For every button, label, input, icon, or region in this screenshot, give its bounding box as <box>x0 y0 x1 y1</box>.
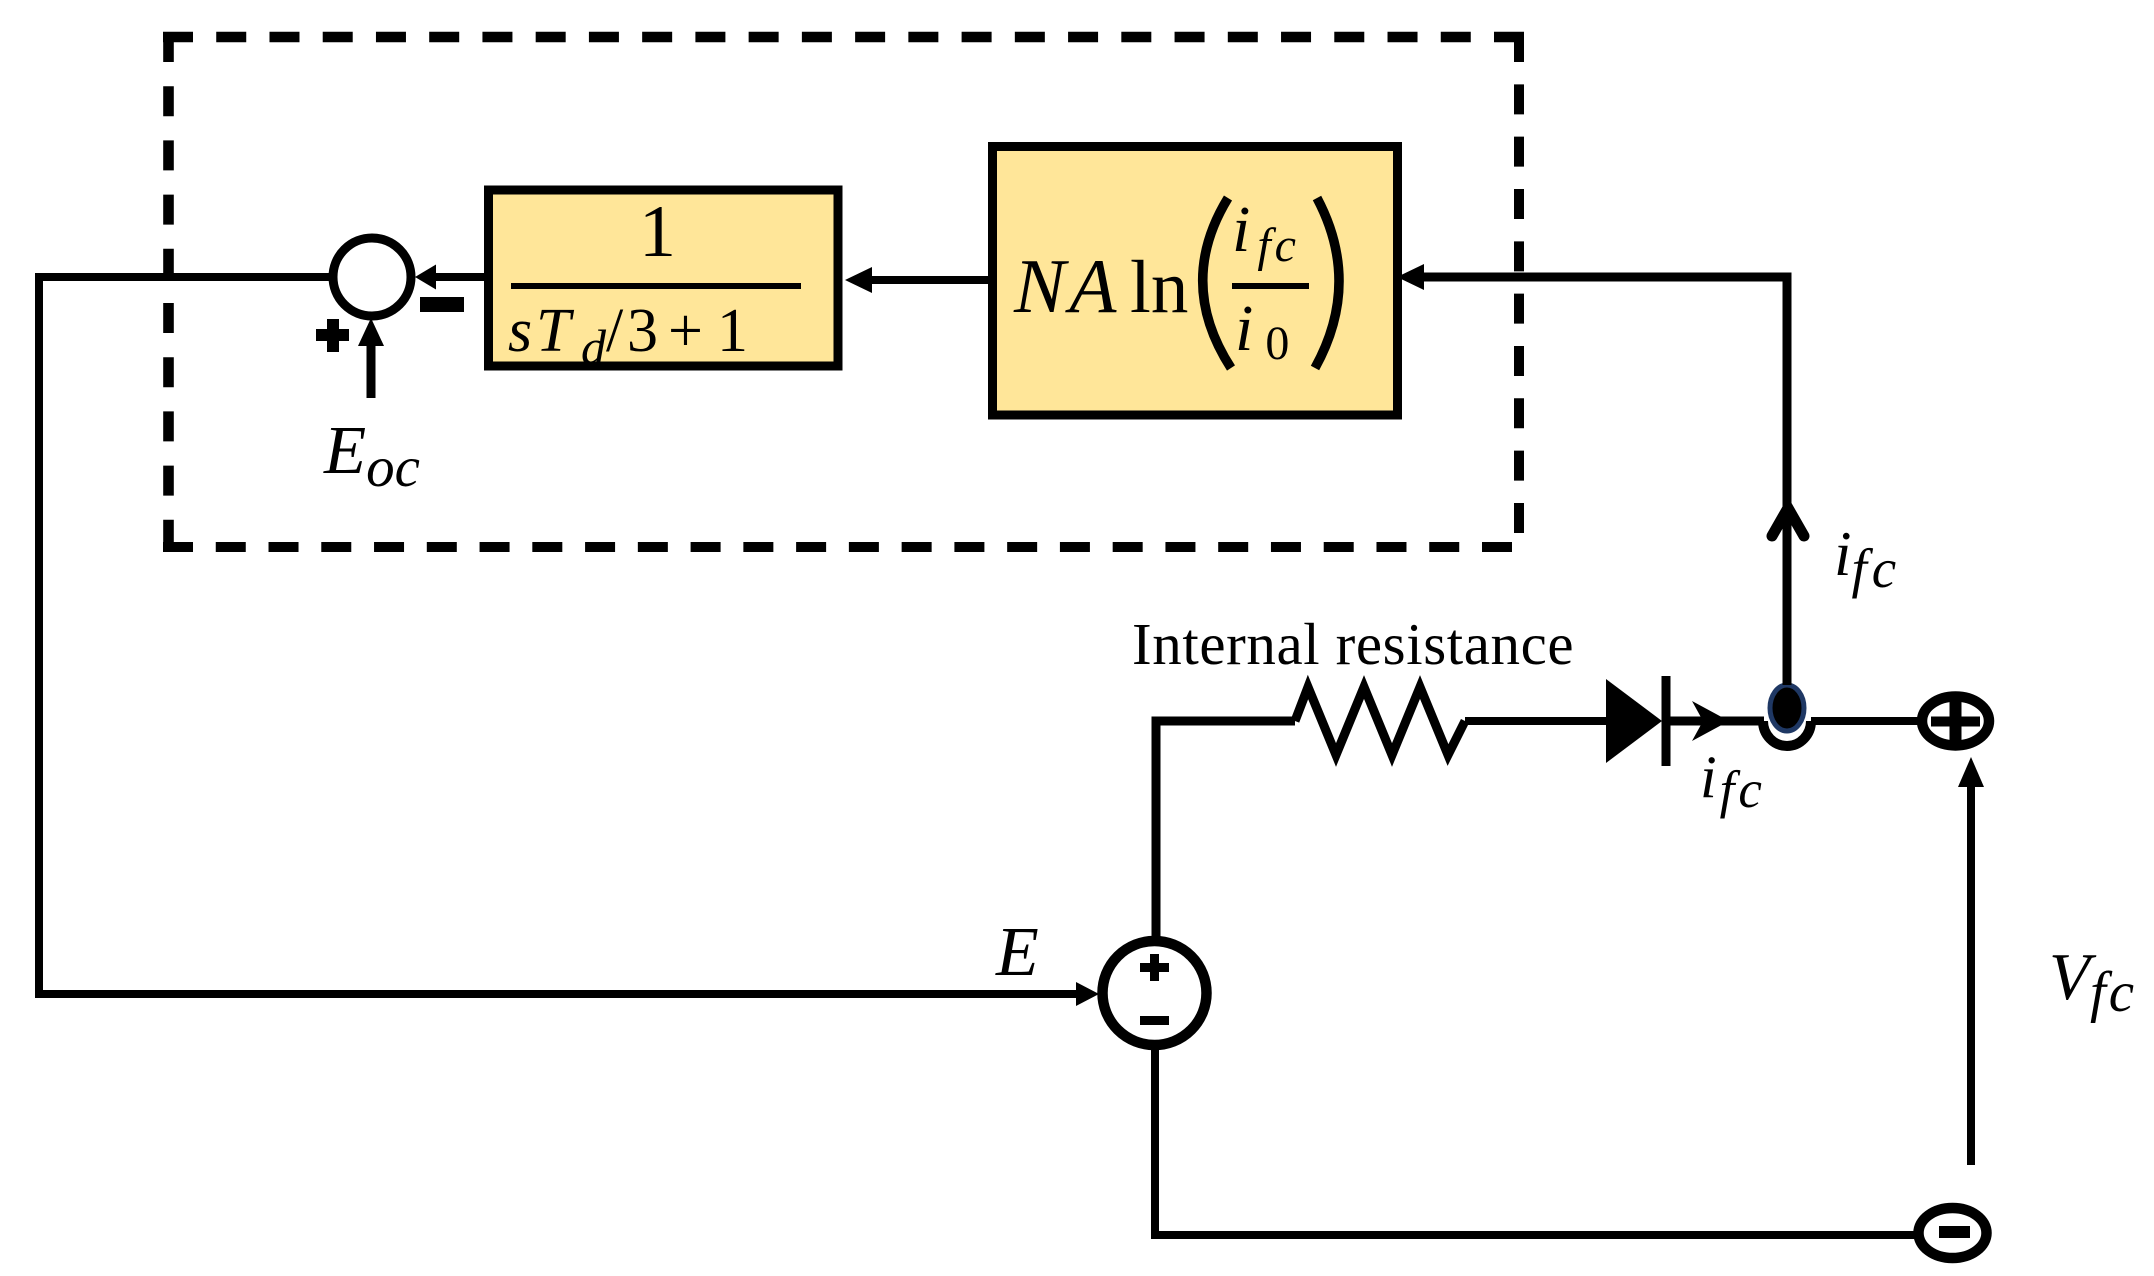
wire: transfer function block to summing junction <box>430 273 484 281</box>
block U1 numerator 1 <box>639 191 676 273</box>
block U1 fraction bar <box>511 283 801 289</box>
resistor (internal resistance) <box>1295 687 1465 755</box>
voltage source circle <box>1103 941 1207 1045</box>
block U2 fraction i_fc <box>1232 193 1300 272</box>
wire: diode to node <box>1666 717 1764 726</box>
node junction: dot <box>1770 685 1804 731</box>
svg-text:ifc: ifc <box>1834 519 1901 599</box>
svg-text:NA: NA <box>1013 243 1120 329</box>
node junction: wire hop arc <box>1763 721 1811 746</box>
svg-text:Internal resistance: Internal resistance <box>1132 611 1574 677</box>
svg-text:ln: ln <box>1130 246 1188 329</box>
summing junction minus label <box>420 297 464 312</box>
summing junction circle <box>333 238 411 316</box>
voltage source minus sign <box>1140 1016 1169 1025</box>
arrowhead into NA ln block <box>1397 264 1424 290</box>
arrowhead into voltage source <box>1076 982 1099 1006</box>
arrowhead into transfer function block <box>845 267 872 293</box>
wire: node up to feedback corner and left to NA ln block <box>1410 277 1787 685</box>
block U1: 1/(sTd/3+1) <box>489 190 839 366</box>
block U1 denominator sTd/3+1 <box>508 297 748 375</box>
diode D1 <box>1606 676 1666 766</box>
block U2: NA ln(ifc/i0) <box>993 147 1398 416</box>
wire: summing junction output left and down to E input <box>39 277 1080 994</box>
wire: voltage source up to resistor row <box>1156 721 1295 942</box>
arrow i_fc on output wire (stealth head) <box>1692 701 1729 741</box>
svg-text:Eoc: Eoc <box>323 412 420 499</box>
svg-text:E: E <box>995 914 1039 991</box>
svg-text:1: 1 <box>639 191 676 273</box>
label E_oc <box>323 412 420 499</box>
voltage source plus sign <box>1140 954 1169 981</box>
arrowhead into summing junction <box>415 265 436 290</box>
svg-text:ifc: ifc <box>1700 744 1766 819</box>
dashed subsystem box <box>163 32 1524 550</box>
arrow up i_fc on feedback wire <box>1772 508 1804 536</box>
block U2 left parenthesis <box>1203 198 1231 368</box>
block U2 fraction i_0 <box>1235 292 1289 370</box>
label i_fc feedback current <box>1834 519 1901 599</box>
wire: resistor to diode <box>1465 717 1608 725</box>
label E <box>995 914 1039 991</box>
block U2 fraction bar <box>1232 283 1309 289</box>
arrow E_oc into summing junction <box>358 318 384 398</box>
label V_fc <box>2049 940 2137 1024</box>
label i_fc output current <box>1700 744 1766 819</box>
wire: node to positive terminal <box>1811 717 1924 725</box>
wire: NA ln block to transfer function block <box>858 276 988 284</box>
svg-text:Vfc: Vfc <box>2049 940 2137 1024</box>
block U2 right parenthesis <box>1315 198 1339 368</box>
wire: voltage source bottom to negative terminal <box>1155 1044 1919 1235</box>
V_fc measurement arrow <box>1958 757 1984 1165</box>
block U2 text NA ln <box>1013 243 1188 329</box>
summing junction plus label <box>316 319 349 352</box>
negative terminal <box>1919 1208 1987 1258</box>
positive terminal <box>1922 697 1989 746</box>
label Internal resistance <box>1132 611 1574 677</box>
